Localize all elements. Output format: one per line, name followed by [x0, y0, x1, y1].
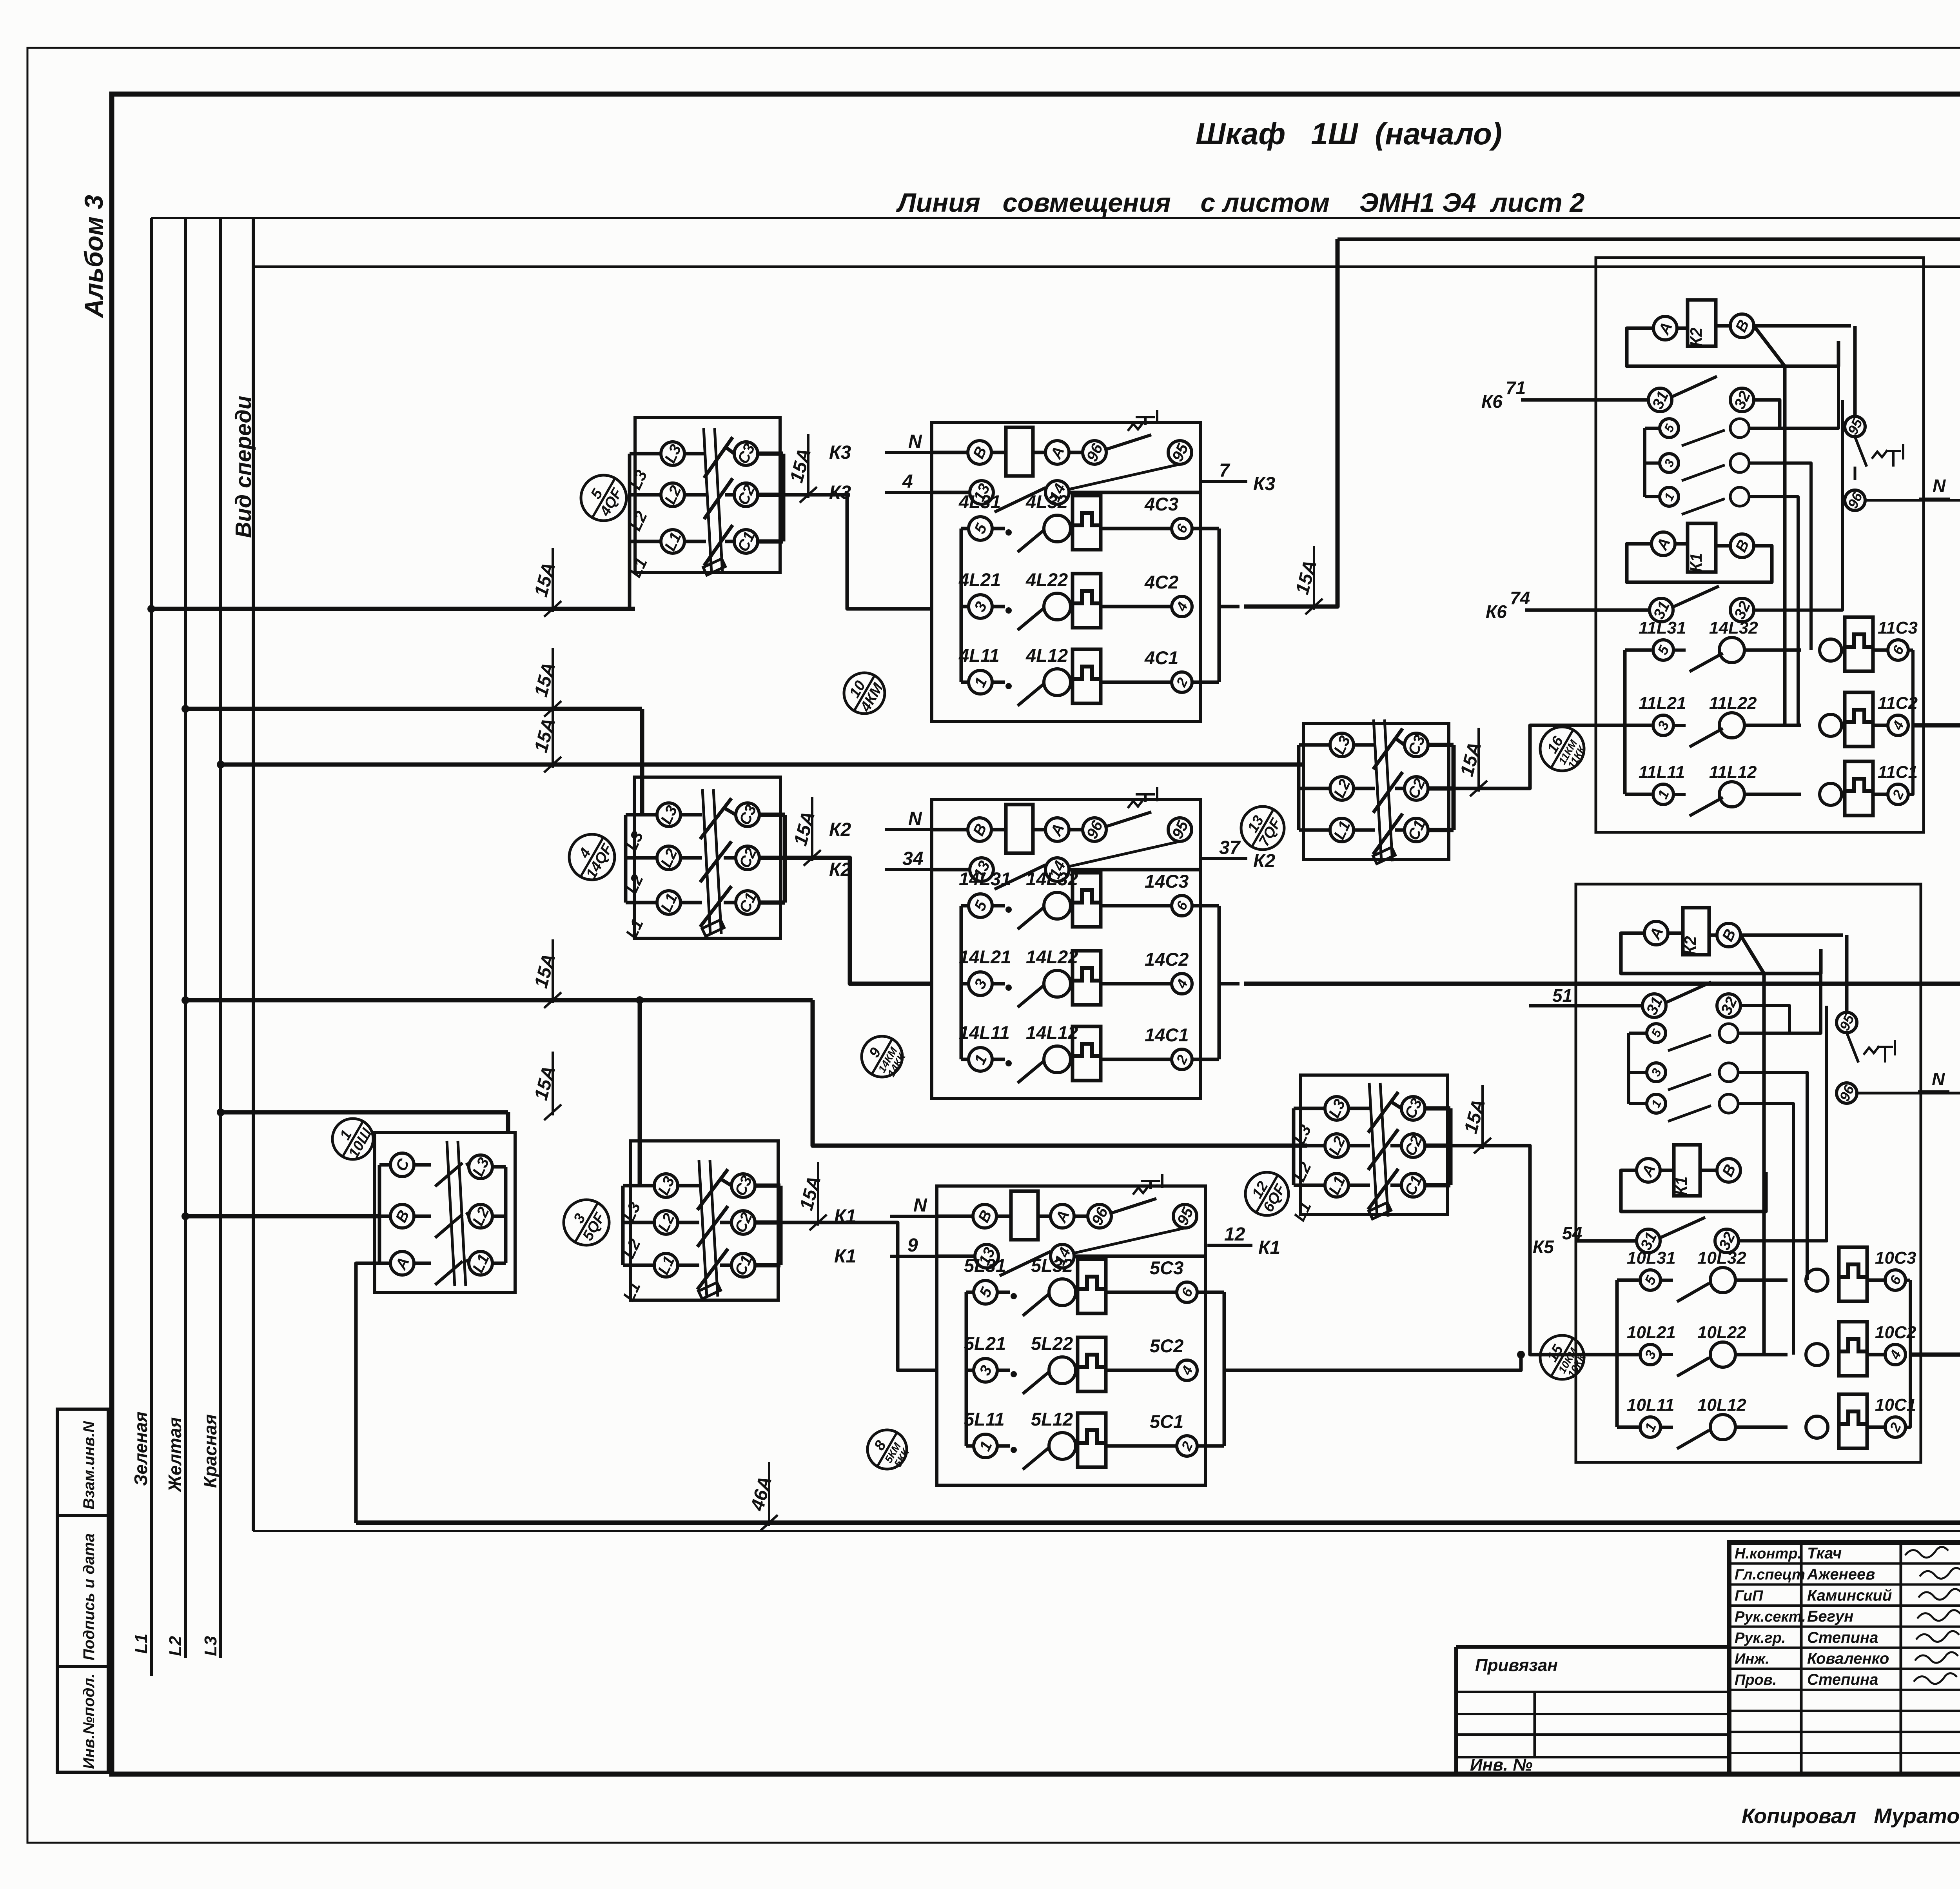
- contactor 4КМ output terminal 4С1: [1101, 681, 1172, 684]
- 14QF pole terminal C2: [724, 856, 736, 860]
- svg-text:4L32: 4L32: [1025, 491, 1068, 512]
- contactor 5КМ input bracket: [965, 1292, 968, 1446]
- svg-text:11L11: 11L11: [1639, 763, 1685, 782]
- coil К2 of 10КМ loop: [1621, 933, 1821, 974]
- contactor 4КМ output terminal 4С2: [1101, 605, 1172, 608]
- svg-text:Степина: Степина: [1807, 1629, 1878, 1646]
- wire 4QF output: [783, 495, 932, 609]
- 14QF pole terminal C1: [724, 901, 736, 905]
- 6QF pole terminal L3: [1325, 1097, 1348, 1120]
- 4QF pole terminal L3: [661, 442, 684, 465]
- svg-text:10L32: 10L32: [1697, 1248, 1746, 1268]
- wire bus to 10Ш: [185, 1214, 379, 1219]
- 10КМ output terminal 10С1: [1867, 1426, 1885, 1429]
- 10Ш switch bar: [447, 1141, 455, 1286]
- 14QF pole terminal L2: [657, 846, 681, 870]
- svg-text:Красная: Красная: [200, 1414, 220, 1488]
- coil К1 of 10КМ loop: [1621, 1170, 1766, 1212]
- designator 12/6QF: [1245, 1172, 1289, 1215]
- designator 8/5КМ 5КК: [867, 1430, 907, 1469]
- disconnect switch 1/10Ш block: [375, 1132, 515, 1293]
- svg-text:14L12: 14L12: [1026, 1022, 1078, 1043]
- 7QF pole terminal C1: [1395, 828, 1405, 832]
- svg-text:4L31: 4L31: [958, 491, 1001, 512]
- svg-text:Инв. №: Инв. №: [1470, 1755, 1533, 1775]
- coil К1 of 10КМ: [1674, 1145, 1700, 1196]
- svg-text:14L32: 14L32: [1709, 618, 1758, 638]
- 6QF pole terminal C3: [1390, 1101, 1401, 1108]
- 10КМ output bracket: [1906, 1279, 1910, 1282]
- svg-text:5С2: 5С2: [1150, 1335, 1183, 1356]
- 6QF output bracket: [1425, 1106, 1450, 1111]
- bus N: [252, 218, 255, 1531]
- 5QF pole terminal C2: [720, 1221, 731, 1224]
- starter 16/11КМ block: [1596, 258, 1924, 832]
- wire 96 to К6 N: [1865, 499, 1960, 502]
- contactor 4КМ input bracket: [960, 529, 963, 682]
- 7QF pole terminal L1: [1330, 818, 1354, 842]
- 10Ш right bracket: [492, 1165, 506, 1169]
- 10Ш terminal А: [390, 1251, 414, 1275]
- 11КМ main contact 11L21-11L22: [1625, 724, 1651, 727]
- 7QF input bracket: [1299, 743, 1311, 747]
- wire 4КМ output riser: [1244, 239, 1338, 607]
- 14QF input bracket: [626, 813, 638, 817]
- 4QF pole terminal C3: [725, 447, 734, 454]
- starter 15/10КМ block: [1576, 884, 1921, 1462]
- svg-text:ГиП: ГиП: [1735, 1587, 1763, 1604]
- svg-text:11L31: 11L31: [1639, 618, 1686, 638]
- svg-text:Степина: Степина: [1807, 1671, 1878, 1688]
- contactor 14КМ aux switch 95-96: [1106, 812, 1151, 826]
- wire 14QF output: [784, 858, 932, 984]
- 5QF pole terminal C1: [720, 1264, 731, 1267]
- contactor 5КМ main contact 5L31-5L32: [966, 1291, 974, 1294]
- svg-text:4С1: 4С1: [1144, 647, 1178, 668]
- 10Ш terminal В: [390, 1204, 414, 1228]
- 5QF pole terminal L2: [654, 1211, 678, 1234]
- svg-text:14С1: 14С1: [1145, 1024, 1189, 1045]
- svg-text:12: 12: [1224, 1224, 1245, 1245]
- contactor 4КМ main contact 4L11-4L12: [961, 681, 969, 684]
- contactor 5КМ contact 13-14: [937, 1255, 976, 1258]
- wire 7QF output to 11КМ: [1453, 725, 1625, 788]
- contactor 5КМ wire 95 to 14: [1074, 1228, 1185, 1253]
- svg-text:5С1: 5С1: [1150, 1411, 1183, 1432]
- feed branch to 5QF 15А: [638, 1000, 642, 1186]
- svg-text:37: 37: [1219, 837, 1241, 858]
- contactor 5КМ main contact 5L21-5L22: [966, 1369, 974, 1372]
- 6QF pole terminal L2: [1325, 1134, 1348, 1157]
- contactor 5КМ output terminal 5С2: [1106, 1369, 1177, 1372]
- designator 4/14QF: [569, 834, 615, 880]
- coil К2 of 10КМ: [1683, 908, 1709, 955]
- svg-text:Рук.гр.: Рук.гр.: [1735, 1630, 1786, 1646]
- svg-text:Инв.№подл.: Инв.№подл.: [80, 1673, 98, 1769]
- svg-text:10L21: 10L21: [1627, 1323, 1676, 1342]
- contactor 14КМ input bracket: [960, 906, 963, 1059]
- title block signature rows: [1729, 1562, 1960, 1565]
- 5QF input bracket: [623, 1184, 635, 1188]
- 4QF output bracket: [758, 452, 783, 456]
- svg-text:5L12: 5L12: [1031, 1409, 1073, 1429]
- wire В to release 95: [1754, 324, 1851, 328]
- svg-text:К6: К6: [1481, 391, 1503, 412]
- bus L2 yellow: [184, 218, 187, 1658]
- feed wire to 6QF via riser: [185, 998, 813, 1003]
- contactor 4КМ wire 95 to 14: [1069, 464, 1180, 489]
- svg-text:К2: К2: [1681, 936, 1699, 955]
- contactor 4КМ main contact 4L31-4L32: [961, 527, 969, 530]
- svg-text:10L11: 10L11: [1627, 1395, 1675, 1415]
- svg-text:Инж.: Инж.: [1735, 1651, 1769, 1667]
- contactor 4КМ coil row: [932, 451, 969, 454]
- 14QF pole terminal L1: [657, 891, 681, 914]
- svg-text:Гл.спецт: Гл.спецт: [1735, 1567, 1805, 1583]
- svg-text:Пров.: Пров.: [1735, 1672, 1777, 1688]
- svg-text:11L12: 11L12: [1709, 763, 1757, 782]
- contactor 5КМ output terminal 5С3: [1106, 1291, 1177, 1294]
- 5QF pole terminal C3: [720, 1179, 731, 1186]
- 11КМ main contacts rows: [1623, 650, 1627, 794]
- wire 14КМ long output: [1244, 982, 1960, 986]
- svg-text:51: 51: [1552, 985, 1572, 1006]
- designator 15/10КМ 10КК: [1540, 1335, 1584, 1379]
- designator 16/11КМ 4КК: [1540, 727, 1584, 771]
- 7QF pole terminal C3: [1395, 738, 1405, 745]
- 11КМ output terminal 11С2: [1873, 724, 1888, 727]
- svg-text:74: 74: [1510, 588, 1530, 608]
- designator 1/10Ш: [332, 1119, 373, 1159]
- 6QF breaker bar: [1369, 1083, 1377, 1217]
- 10Ш terminal L2: [466, 1212, 469, 1216]
- feed wire to 10Ш: [221, 1110, 508, 1115]
- wire В to riser: [1754, 326, 1785, 725]
- 10КМ output terminal 10С3: [1867, 1279, 1885, 1282]
- wire N run: [253, 265, 1960, 268]
- 11КМ release contact 95-96: [1845, 416, 1865, 437]
- 6QF pole terminal L1: [1325, 1173, 1348, 1197]
- feed wire L1 to 4QF 15А: [151, 607, 635, 611]
- wire 96 to К5 N: [1857, 1092, 1960, 1095]
- 11КМ output terminal 11С1: [1873, 793, 1888, 796]
- contactor 14КМ output bracket: [1192, 904, 1219, 908]
- svg-text:14L22: 14L22: [1026, 946, 1078, 967]
- stamp table Привязан: [1456, 1645, 1729, 1649]
- svg-text:Копировал Муратова: Копировал Муратова: [1742, 1804, 1960, 1828]
- 7QF output bracket: [1428, 743, 1454, 747]
- svg-text:N: N: [908, 431, 922, 452]
- 5QF breaker bar: [699, 1160, 707, 1297]
- contactor 4КМ block: [932, 422, 1200, 721]
- svg-text:4L22: 4L22: [1025, 569, 1068, 590]
- svg-text:14L31: 14L31: [959, 868, 1011, 889]
- junction dots: [147, 605, 155, 613]
- svg-text:L1: L1: [132, 1634, 151, 1654]
- svg-text:5L11: 5L11: [964, 1409, 1005, 1429]
- 10Ш terminal L3: [466, 1163, 469, 1167]
- contactor 14КМ main contact 14L11-14L12: [961, 1058, 969, 1061]
- svg-text:L2: L2: [166, 1636, 185, 1656]
- svg-text:К2: К2: [829, 819, 851, 840]
- svg-text:7: 7: [1219, 460, 1230, 481]
- 7QF pole terminal C2: [1395, 787, 1405, 790]
- svg-text:Шкаф 1Ш (начало): Шкаф 1Ш (начало): [1196, 116, 1502, 151]
- svg-text:Н.контр.: Н.контр.: [1735, 1546, 1802, 1562]
- contactor 14КМ coil row: [932, 828, 969, 832]
- svg-text:Каминский: Каминский: [1807, 1587, 1892, 1604]
- svg-text:11С3: 11С3: [1878, 618, 1918, 638]
- svg-text:14С2: 14С2: [1145, 949, 1189, 970]
- svg-text:5С3: 5С3: [1150, 1257, 1183, 1278]
- svg-text:5L21: 5L21: [964, 1333, 1006, 1354]
- contactor 4КМ aux switch 95-96: [1106, 435, 1151, 449]
- designator 3/5QF: [564, 1200, 609, 1245]
- 11КМ output terminal 11С3: [1873, 648, 1888, 652]
- 14QF output bracket: [759, 813, 785, 817]
- svg-text:Альбом 3: Альбом 3: [79, 195, 108, 318]
- coil К1 loop wire: [1627, 544, 1772, 582]
- svg-text:N: N: [913, 1195, 927, 1216]
- wire 5КМ output: [1244, 1355, 1521, 1370]
- 4QF pole terminal C1: [725, 540, 734, 543]
- 6QF pole terminal C2: [1390, 1144, 1401, 1148]
- 4QF pole terminal L1: [661, 530, 684, 553]
- 4QF breaker bar: [704, 428, 711, 573]
- svg-text:4L12: 4L12: [1025, 645, 1068, 666]
- title block signature columns: [1800, 1542, 1803, 1774]
- designator 10/4КМ: [844, 673, 885, 714]
- svg-text:10L22: 10L22: [1697, 1323, 1746, 1342]
- svg-text:К3: К3: [1253, 474, 1276, 494]
- svg-text:К1: К1: [834, 1246, 856, 1267]
- svg-text:L3: L3: [201, 1636, 220, 1656]
- contactor 14КМ wire 95 to 14: [1069, 841, 1180, 866]
- 7QF pole terminal L3: [1330, 733, 1354, 757]
- svg-text:К3: К3: [829, 442, 851, 463]
- contactor 14КМ main contact 14L31-14L32: [961, 904, 969, 908]
- 10КМ output terminal 10С2: [1867, 1353, 1885, 1357]
- title block outline: [1729, 1542, 1960, 1774]
- contactor 14КМ contact 13-14: [932, 868, 971, 872]
- bottom thin N wire: [253, 1530, 1960, 1532]
- circuit breaker 4/14QF block: [634, 777, 780, 938]
- 10Ш output drop wire: [356, 1263, 379, 1523]
- coil К1 of 11КМ: [1688, 523, 1716, 572]
- svg-text:14L32: 14L32: [1026, 868, 1078, 889]
- svg-text:N: N: [908, 808, 922, 829]
- svg-text:14L21: 14L21: [959, 946, 1011, 967]
- svg-text:Привязан: Привязан: [1475, 1656, 1558, 1675]
- contactor 4КМ contact 13-14: [932, 491, 971, 494]
- svg-text:К2: К2: [1253, 851, 1276, 872]
- svg-text:4L21: 4L21: [958, 569, 1001, 590]
- left margin stamp table: [57, 1409, 108, 1772]
- svg-text:5L22: 5L22: [1031, 1333, 1073, 1354]
- 7QF pole terminal L2: [1330, 777, 1354, 800]
- contactor 14КМ block: [932, 799, 1200, 1099]
- circuit breaker 5/4QF block: [635, 418, 780, 572]
- 10КМ main contacts rows: [1615, 1280, 1619, 1427]
- 5QF pole terminal L1: [654, 1253, 678, 1277]
- match line: [151, 217, 1960, 219]
- svg-text:4С2: 4С2: [1144, 572, 1178, 592]
- contactor 5КМ coil row: [937, 1215, 974, 1218]
- 10Ш left bracket: [379, 1163, 390, 1167]
- 14QF pole terminal L3: [657, 803, 681, 826]
- svg-text:Аженеев: Аженеев: [1807, 1566, 1875, 1583]
- circuit breaker 13/7QF block: [1303, 723, 1449, 859]
- contactor 4КМ output terminal 4С3: [1101, 527, 1172, 530]
- 11КМ main contact 11L31-11L32: [1625, 648, 1651, 652]
- wire В to riser 10КМ: [1740, 935, 1764, 1355]
- contactor 14КМ output terminal 14С1: [1101, 1058, 1172, 1061]
- svg-text:Взам.инв.N: Взам.инв.N: [80, 1421, 98, 1509]
- 11КМ aux contacts: [1660, 419, 1679, 438]
- 10КМ main contact 10L21-10L22: [1617, 1353, 1639, 1357]
- designator 9/14КМ 4КК: [862, 1036, 902, 1077]
- svg-text:5L31: 5L31: [964, 1255, 1006, 1276]
- bus L1 green: [150, 218, 153, 1676]
- svg-text:N: N: [1932, 1069, 1945, 1089]
- wire 5QF output to 5КМ: [781, 1222, 937, 1370]
- 14QF breaker bar: [702, 789, 710, 934]
- 10КМ aux contacts: [1627, 1033, 1630, 1104]
- 4QF input riser: [628, 541, 632, 610]
- svg-text:5L32: 5L32: [1031, 1255, 1073, 1276]
- coil К2 loop wire: [1627, 328, 1838, 366]
- contactor 4КМ output bracket: [1192, 527, 1219, 530]
- svg-text:9: 9: [907, 1235, 918, 1256]
- svg-text:11L21: 11L21: [1639, 694, 1686, 713]
- 6QF input bracket: [1294, 1107, 1306, 1110]
- svg-text:Линия совмещения с листом: Линия совмещения с листом ЭМН1 Э4 лист 2: [896, 188, 1585, 218]
- svg-text:Коваленко: Коваленко: [1807, 1650, 1889, 1667]
- feed wire L2 to 14QF 15А: [185, 707, 642, 711]
- svg-text:10L31: 10L31: [1627, 1248, 1676, 1268]
- contactor 5КМ aux switch 95-96: [1111, 1199, 1156, 1213]
- contactor 5КМ output bracket: [1197, 1291, 1224, 1294]
- svg-text:К6: К6: [1486, 601, 1507, 622]
- svg-text:К1: К1: [1258, 1237, 1280, 1258]
- svg-text:К2: К2: [1687, 327, 1705, 347]
- svg-text:К5: К5: [1533, 1237, 1554, 1257]
- contactor 14КМ main contact 14L21-14L22: [961, 982, 969, 986]
- 4QF pole terminal L2: [661, 483, 684, 507]
- 5QF pole terminal L3: [654, 1174, 678, 1197]
- circuit breaker 3/5QF block: [630, 1141, 778, 1300]
- svg-text:4С3: 4С3: [1144, 494, 1178, 514]
- bottom feed wire 46А: [356, 1520, 1960, 1525]
- svg-text:Ткач: Ткач: [1807, 1545, 1842, 1562]
- designator 5/4QF: [581, 475, 626, 521]
- contactor 5КМ output terminal 5С1: [1106, 1444, 1177, 1448]
- svg-text:10L12: 10L12: [1697, 1395, 1746, 1415]
- svg-text:14L11: 14L11: [959, 1022, 1010, 1043]
- 11КМ output bracket: [1908, 648, 1913, 652]
- svg-text:14С3: 14С3: [1145, 871, 1189, 892]
- 10Ш terminal L1: [466, 1259, 469, 1263]
- 4QF input bracket: [630, 452, 642, 456]
- 10КМ release contact 95-96: [1837, 1012, 1857, 1033]
- 4QF pole terminal C2: [725, 493, 734, 497]
- contactor 5КМ main contact 5L11-5L12: [966, 1444, 974, 1448]
- 10Ш terminal С: [390, 1153, 414, 1177]
- svg-text:11L22: 11L22: [1709, 694, 1757, 713]
- feed wire L3 to 7QF 15А: [221, 763, 1303, 767]
- 10КМ main contact 10L11-10L12: [1617, 1426, 1639, 1429]
- circuit breaker 12/6QF block: [1300, 1075, 1448, 1215]
- svg-text:4: 4: [902, 471, 913, 492]
- svg-text:N: N: [1933, 476, 1946, 496]
- contactor 14КМ output terminal 14С3: [1101, 904, 1172, 908]
- wire 6QF output to 10КМ: [1452, 1146, 1617, 1355]
- svg-text:К1: К1: [1687, 553, 1705, 572]
- bus L3 red: [219, 218, 222, 1658]
- contactor 14КМ output terminal 14С2: [1101, 982, 1172, 986]
- 5QF output bracket: [755, 1184, 780, 1188]
- svg-text:4L11: 4L11: [958, 645, 1000, 666]
- svg-text:Подпись и дата: Подпись и дата: [80, 1533, 98, 1660]
- 14QF pole terminal C3: [724, 808, 736, 815]
- contactor 5КМ block: [937, 1186, 1205, 1485]
- svg-text:71: 71: [1506, 378, 1526, 398]
- 6QF pole terminal C1: [1390, 1184, 1401, 1187]
- svg-text:Желтая: Желтая: [165, 1417, 185, 1493]
- svg-text:Зеленая: Зеленая: [131, 1411, 151, 1486]
- designator 13/7QF: [1241, 806, 1284, 850]
- svg-text:Бегун: Бегун: [1807, 1608, 1853, 1625]
- wire top run to circuit 4: [1338, 239, 1960, 333]
- svg-text:34: 34: [902, 848, 923, 869]
- contactor 4КМ main contact 4L21-4L22: [961, 605, 969, 608]
- 11КМ main contact 11L11-11L12: [1625, 793, 1651, 796]
- 7QF breaker bar: [1374, 719, 1381, 861]
- svg-text:К1: К1: [1672, 1176, 1690, 1195]
- svg-text:10С3: 10С3: [1875, 1248, 1916, 1268]
- coil К2 of 11КМ: [1688, 300, 1716, 346]
- svg-text:Рук.сект.: Рук.сект.: [1735, 1609, 1806, 1625]
- wire В to release 95 10КМ: [1740, 934, 1843, 937]
- 10КМ main contact 10L31-10L32: [1617, 1279, 1639, 1282]
